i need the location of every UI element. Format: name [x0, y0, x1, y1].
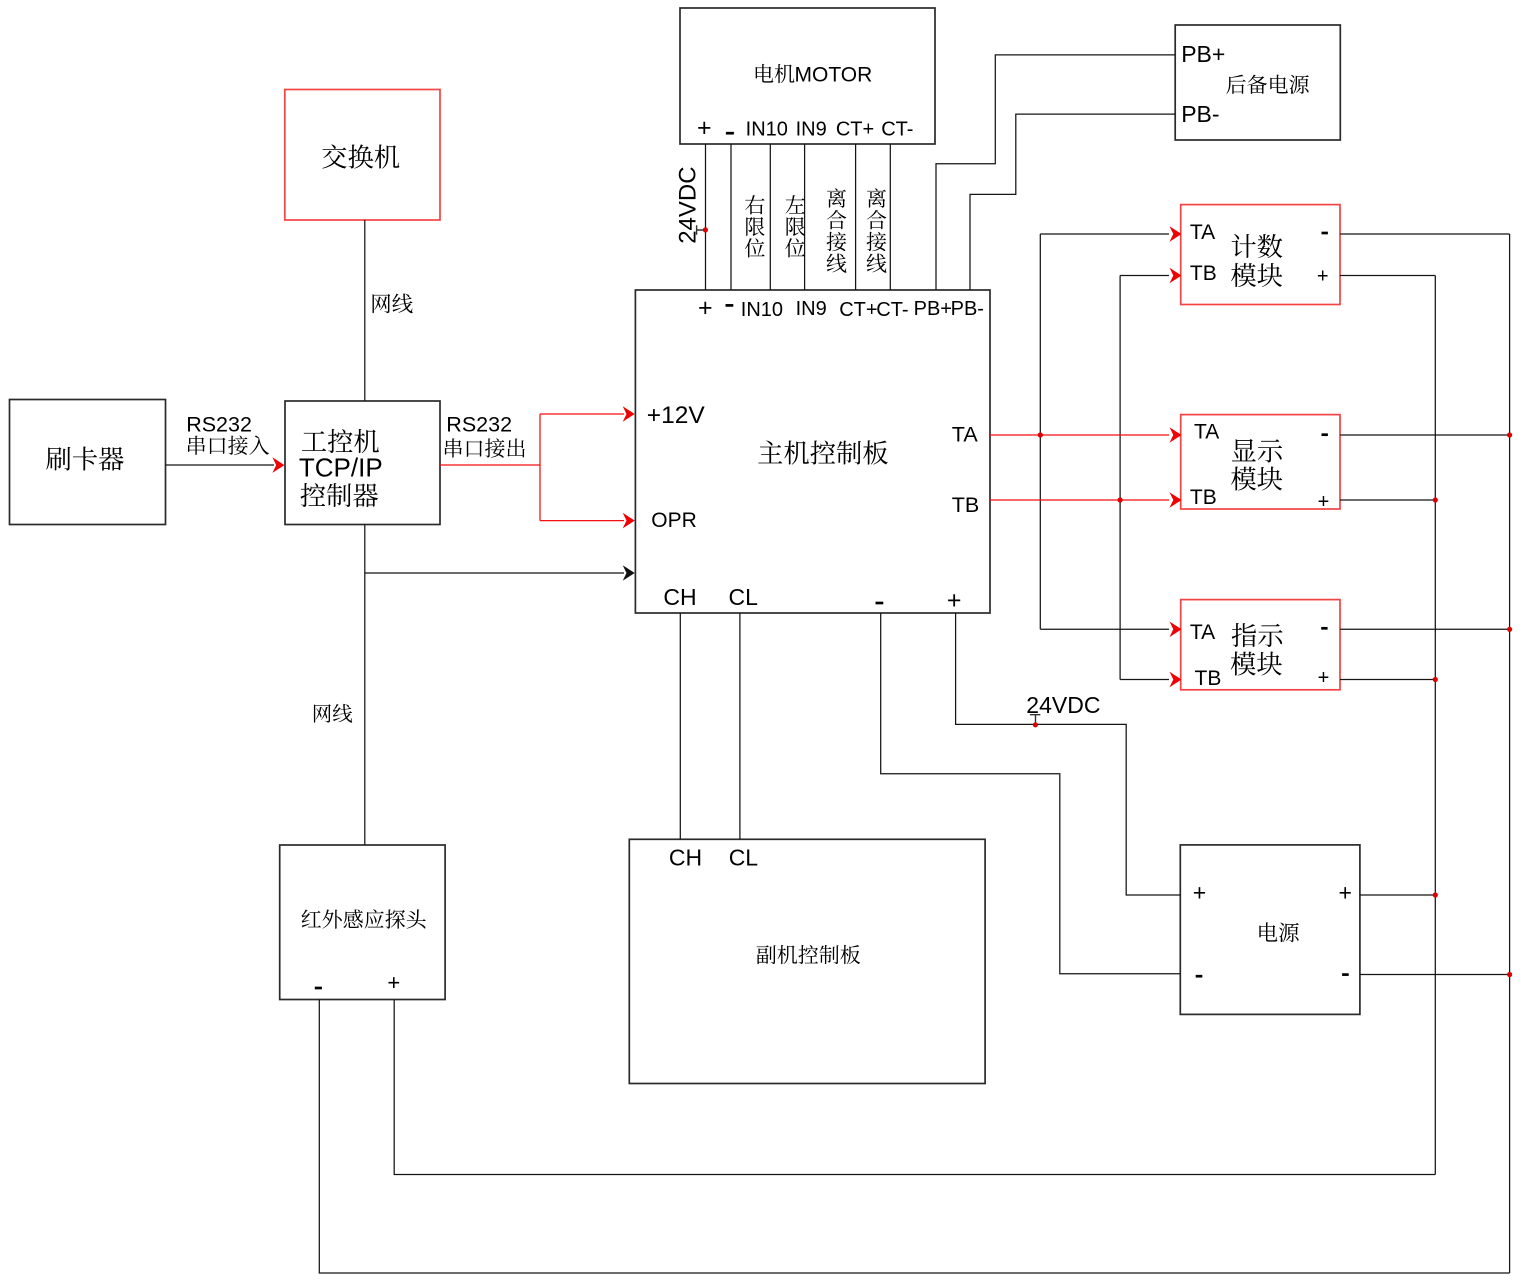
label 串口接出 — [445, 438, 525, 457]
svg-text:CL: CL — [729, 845, 759, 871]
TB bus vertical — [1119, 276, 1121, 680]
svg-text:+: + — [1318, 667, 1330, 689]
wire main - to PSU - — [881, 613, 1181, 974]
svg-text:24VDC: 24VDC — [1026, 692, 1100, 718]
junction dot display + / plus bus — [1433, 497, 1438, 502]
wire RS232 in — [166, 464, 275, 466]
wire counter - to minus bus — [1340, 233, 1510, 235]
label 网线 (top) — [373, 293, 413, 313]
svg-text:RS232: RS232 — [446, 413, 512, 437]
motor CT+ wire — [855, 144, 857, 290]
label 刷卡器 — [46, 446, 123, 470]
svg-text:+: + — [1317, 265, 1329, 287]
label 模块 (display) — [1231, 466, 1282, 490]
svg-text:TB: TB — [1195, 667, 1222, 690]
block 刷卡器 card reader — [10, 400, 166, 525]
svg-text:TB: TB — [952, 493, 979, 517]
svg-text:+: + — [1318, 491, 1330, 513]
wire CH main to slave — [679, 613, 681, 839]
block 指示模块 indicator module (red) — [1181, 600, 1340, 690]
block 电源 power supply — [1180, 845, 1360, 1015]
red arrowhead indicator TA — [1170, 622, 1182, 638]
block 交换机 switch (red) — [285, 90, 440, 221]
label 模块 (indicator) — [1231, 651, 1282, 675]
junction dot indicator + / plus bus — [1433, 677, 1438, 682]
wire main + to PSU + — [956, 613, 1181, 895]
wire PSU right + to bus — [1360, 894, 1435, 896]
block 电机MOTOR — [680, 8, 935, 144]
psu terminal - right — [1342, 973, 1349, 976]
svg-text:+: + — [698, 294, 713, 322]
svg-text:TA: TA — [1194, 421, 1219, 444]
label 交换机 — [322, 144, 399, 168]
indicator terminal - — [1321, 627, 1327, 630]
junction dot indicator - / minus bus — [1507, 627, 1512, 632]
motor CT- wire — [889, 144, 891, 290]
display terminal - — [1322, 433, 1328, 436]
red arrowhead counter TB — [1170, 268, 1182, 284]
block 副机控制板 slave control board — [629, 839, 985, 1083]
wire 网线 IPC to IR sensor — [364, 525, 366, 846]
TA bus vertical — [1039, 234, 1041, 629]
svg-text:CT-: CT- — [881, 119, 913, 141]
wire to indicator TA — [1040, 628, 1169, 630]
junction dot TB bus / display TB — [1118, 497, 1123, 502]
24VDC label tick (psu +) — [1030, 715, 1040, 725]
label 离合接线 clutch wiring 1 — [827, 188, 846, 207]
block 显示模块 display module (red) — [1181, 415, 1340, 509]
label 左限位 left limit — [785, 195, 804, 213]
svg-text:24VDC: 24VDC — [675, 166, 702, 243]
label 网线 (bottom) — [314, 704, 352, 723]
motor terminal - — [726, 132, 734, 135]
label 红外感应探头 — [302, 909, 426, 928]
label 控制器 — [301, 483, 379, 507]
label 副机控制板 — [757, 945, 861, 964]
wire to counter TA — [1040, 233, 1169, 235]
red arrowhead OPR — [623, 513, 635, 529]
svg-text:CH: CH — [663, 584, 696, 610]
red arrowhead into IPC — [272, 457, 284, 473]
svg-text:TA: TA — [1190, 621, 1215, 644]
svg-text:TA: TA — [952, 423, 979, 447]
psu terminal - left — [1196, 975, 1203, 978]
wire counter + to plus bus — [1340, 275, 1435, 277]
red arrowhead display TB — [1170, 492, 1182, 508]
wire indicator + to bus — [1340, 679, 1435, 681]
label 主机控制板 — [758, 440, 888, 464]
block 计数模块 counter module (red) — [1181, 205, 1340, 305]
junction dot PSU - / minus bus — [1507, 972, 1512, 977]
motor IN9 wire — [804, 144, 806, 290]
wire CL main to slave — [739, 613, 741, 839]
svg-text:IN10: IN10 — [746, 119, 788, 141]
wire to indicator TB — [1120, 679, 1169, 681]
wire indicator - to bus — [1340, 628, 1510, 630]
svg-text:CT+: CT+ — [839, 299, 877, 321]
red arrowhead indicator TB — [1170, 672, 1182, 688]
block 红外感应探头 IR sensor — [280, 845, 445, 1000]
svg-text:MOTOR: MOTOR — [795, 64, 873, 87]
black arrowhead into main board — [623, 565, 635, 581]
red wire main TB to display TB — [990, 499, 1169, 501]
right minus bus vertical — [1509, 234, 1511, 1273]
24VDC label tick (motor +) — [697, 225, 706, 235]
block 工控机 TCP/IP 控制器 — [285, 401, 440, 525]
main terminal - top — [726, 304, 734, 307]
svg-text:TA: TA — [1190, 221, 1215, 244]
svg-text:TCP/IP: TCP/IP — [299, 453, 383, 483]
svg-text:+12V: +12V — [647, 402, 706, 429]
label 电机 — [756, 64, 795, 83]
svg-text:TB: TB — [1190, 486, 1217, 509]
wire to main board input — [365, 572, 624, 574]
svg-text:IN9: IN9 — [796, 119, 827, 141]
label 电源 — [1259, 922, 1298, 942]
wire PB- to backup — [970, 114, 1175, 290]
label 显示 — [1232, 439, 1282, 463]
red wire main TA to display TA — [990, 434, 1169, 436]
svg-text:CL: CL — [728, 584, 758, 610]
label 离合接线 clutch wiring 2 — [867, 188, 886, 207]
label 模块 (counter) — [1231, 263, 1282, 287]
svg-text:+: + — [1338, 880, 1351, 906]
wire PB+ to backup — [936, 55, 1175, 290]
wire 网线 switch to IPC — [364, 220, 366, 401]
right plus bus vertical — [1434, 276, 1436, 1175]
IR terminal - — [315, 987, 322, 990]
svg-text:PB+: PB+ — [1181, 41, 1225, 67]
junction dot TA bus / display TA — [1038, 432, 1043, 437]
svg-text:OPR: OPR — [651, 509, 697, 532]
motor - wire — [730, 144, 732, 290]
red wire RS232 out fork — [440, 414, 624, 521]
block 后备电源 backup power — [1175, 25, 1340, 140]
svg-text:IN10: IN10 — [741, 299, 783, 321]
block 主机控制板 main control board — [635, 290, 990, 613]
junction dot 24VDC motor + — [703, 227, 708, 232]
svg-text:IN9: IN9 — [796, 298, 827, 320]
label 右限位 right limit — [745, 195, 764, 214]
label 串口接入 — [188, 435, 269, 454]
svg-text:+: + — [947, 587, 962, 615]
svg-text:CH: CH — [669, 845, 702, 871]
svg-text:RS232: RS232 — [186, 413, 252, 437]
label 计数 — [1232, 234, 1283, 258]
motor + wire — [705, 144, 707, 290]
red arrowhead display TA — [1170, 427, 1182, 443]
svg-text:PB-: PB- — [951, 298, 984, 320]
label 工控机 — [302, 429, 379, 453]
motor IN10 wire — [769, 144, 771, 290]
wire PSU right - to bus — [1360, 974, 1510, 976]
counter terminal - — [1322, 232, 1328, 235]
svg-text:PB+: PB+ — [914, 298, 952, 320]
wire display - to bus — [1340, 434, 1510, 436]
label 指示 — [1232, 623, 1283, 647]
junction dot PSU + / plus bus — [1433, 892, 1438, 897]
svg-text:CT+: CT+ — [836, 119, 874, 141]
red arrowhead +12V — [623, 406, 635, 422]
red arrowhead counter TA — [1170, 226, 1182, 242]
svg-text:CT-: CT- — [876, 299, 908, 321]
junction dot 24VDC psu + — [1033, 722, 1038, 727]
label 后备电源 — [1226, 75, 1308, 94]
main terminal - bottom — [876, 602, 884, 605]
svg-text:TB: TB — [1190, 262, 1217, 285]
svg-text:PB-: PB- — [1181, 101, 1219, 127]
wire to counter TB — [1120, 275, 1169, 277]
svg-text:+: + — [387, 970, 400, 995]
wire display + to bus — [1340, 499, 1435, 501]
svg-text:+: + — [697, 114, 712, 142]
wire IR - bottom run — [319, 1000, 1509, 1274]
junction dot display - / minus bus — [1507, 432, 1512, 437]
svg-text:+: + — [1193, 880, 1206, 906]
wire IR + bottom run — [394, 1000, 1435, 1175]
